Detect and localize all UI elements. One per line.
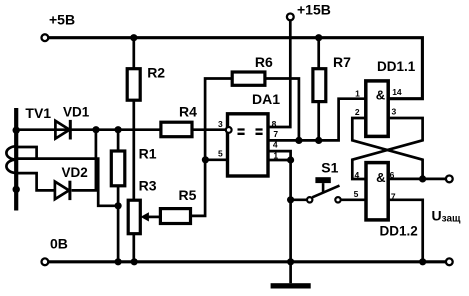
svg-text:1: 1 bbox=[355, 88, 360, 98]
svg-text:R5: R5 bbox=[179, 187, 197, 203]
svg-text:VD1: VD1 bbox=[63, 105, 90, 120]
svg-text:DD1.1: DD1.1 bbox=[377, 59, 416, 74]
svg-text:3: 3 bbox=[392, 107, 397, 117]
svg-text:+5В: +5В bbox=[49, 11, 75, 27]
svg-text:TV1: TV1 bbox=[25, 105, 51, 121]
svg-text:R7: R7 bbox=[333, 54, 351, 70]
svg-text:2: 2 bbox=[355, 107, 360, 117]
svg-text:R2: R2 bbox=[147, 64, 165, 80]
svg-text:0В: 0В bbox=[50, 236, 68, 252]
svg-text:5: 5 bbox=[354, 189, 359, 199]
svg-text:VD2: VD2 bbox=[62, 165, 88, 180]
svg-text:+15В: +15В bbox=[297, 1, 331, 17]
svg-text:1: 1 bbox=[273, 150, 278, 160]
svg-text:R4: R4 bbox=[179, 104, 197, 120]
svg-text:&: & bbox=[376, 87, 385, 102]
svg-text:DA1: DA1 bbox=[252, 91, 280, 107]
svg-text:7: 7 bbox=[273, 129, 278, 139]
svg-text:&: & bbox=[376, 170, 385, 185]
svg-text:S1: S1 bbox=[321, 159, 338, 175]
svg-text:4: 4 bbox=[355, 170, 360, 180]
svg-text:R1: R1 bbox=[139, 145, 157, 161]
svg-text:14: 14 bbox=[392, 87, 402, 97]
svg-text:DD1.2: DD1.2 bbox=[380, 223, 418, 238]
svg-text:R3: R3 bbox=[139, 177, 157, 193]
svg-text:R6: R6 bbox=[255, 54, 273, 70]
svg-text:8: 8 bbox=[272, 119, 277, 129]
svg-text:5: 5 bbox=[218, 148, 223, 158]
svg-text:3: 3 bbox=[218, 119, 223, 129]
svg-text:4: 4 bbox=[273, 140, 278, 150]
svg-text:7: 7 bbox=[391, 192, 396, 202]
svg-text:6: 6 bbox=[390, 170, 395, 180]
